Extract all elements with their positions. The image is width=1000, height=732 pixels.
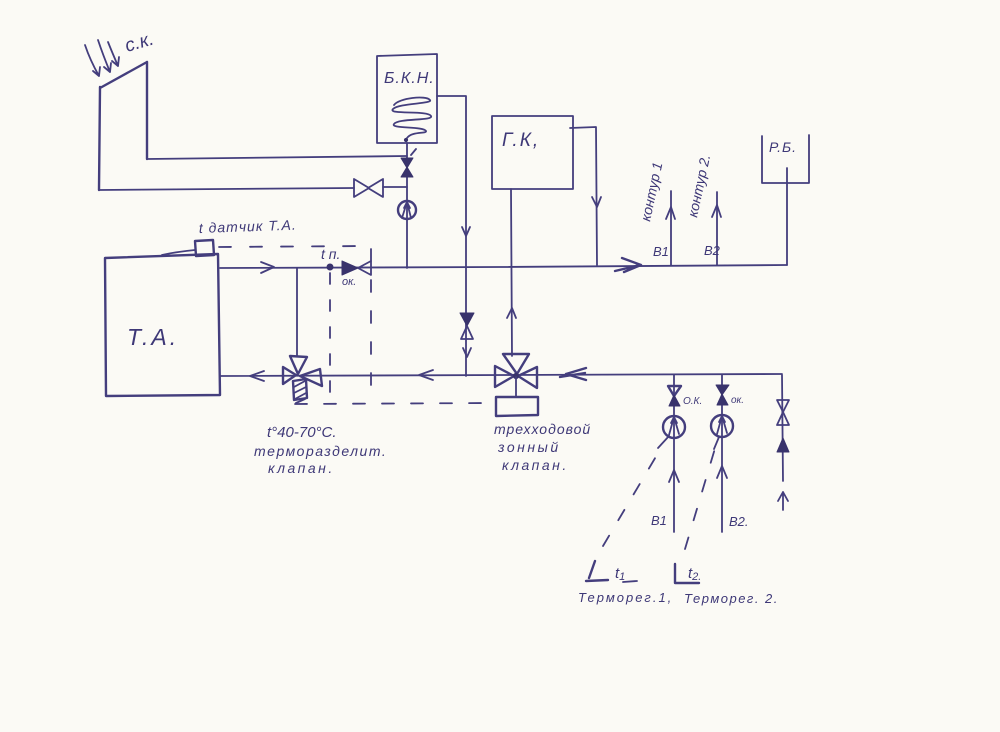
- riser БКН to supply main: [406, 143, 408, 268]
- svg-text:Терморег. 2.: Терморег. 2.: [684, 591, 779, 606]
- pump contour 2: [711, 415, 733, 437]
- svg-text:ок.: ок.: [731, 395, 744, 406]
- sun rays: [85, 40, 119, 76]
- pump on БКН riser: [398, 201, 416, 219]
- svg-text:Б.К.Н.: Б.К.Н.: [384, 70, 435, 87]
- svg-text:трехходовой: трехходовой: [494, 421, 591, 437]
- contour 2 return branch: [721, 375, 723, 532]
- svg-text:В1: В1: [651, 513, 667, 528]
- flow arrow down to return: [463, 348, 471, 357]
- svg-text:ок.: ок.: [342, 276, 356, 288]
- valve on БКН drop: [460, 313, 474, 326]
- flow arrow supply near tank: [261, 262, 274, 273]
- pipe ГК bottom to zone valve: [511, 189, 512, 356]
- boiler БКН box: [377, 54, 437, 143]
- svg-text:t датчик Т.А.: t датчик Т.А.: [199, 217, 297, 236]
- thermo valve actuator hatched: [293, 379, 307, 400]
- flow arrow return right big: [560, 368, 586, 380]
- valve on БКН riser: [401, 158, 413, 177]
- supply main: [220, 265, 787, 268]
- pipe БКН right side down to return: [437, 96, 466, 376]
- coil end dot: [404, 138, 407, 141]
- storage tank ТА box: [105, 254, 220, 396]
- flow arrow return mid: [419, 370, 433, 380]
- check valve ок contour 2: [716, 385, 729, 405]
- pipe РБ down to supply main: [786, 168, 788, 265]
- solar collector: [99, 62, 147, 190]
- svg-text:О.К.: О.К.: [683, 396, 702, 407]
- flow arrow down: [592, 197, 601, 207]
- thermo mixing valve: [283, 356, 322, 386]
- collector return pipe: [99, 187, 407, 190]
- flow arrow return near tank: [250, 371, 264, 381]
- dashed thermostat line 2: [685, 445, 716, 549]
- pipe ГК right to supply main: [570, 127, 597, 265]
- svg-text:клапан.: клапан.: [502, 457, 569, 473]
- svg-text:t°40-70°C.: t°40-70°C.: [267, 424, 337, 441]
- svg-text:Т.А.: Т.А.: [127, 324, 179, 350]
- dashed line sensor to valve: [219, 246, 371, 400]
- big flow arrow supply: [615, 258, 641, 272]
- three-way zone valve: [495, 354, 537, 388]
- svg-text:Р.Б.: Р.Б.: [769, 139, 797, 155]
- svg-text:Г.К,: Г.К,: [502, 130, 540, 151]
- dashed thermostat line 1: [603, 443, 664, 546]
- dashed line from supply tap: [329, 273, 331, 401]
- svg-text:В1: В1: [653, 244, 669, 259]
- pipe supply main down to thermo valve: [296, 268, 298, 356]
- svg-text:В2.: В2.: [729, 514, 749, 529]
- expansion tank РБ box: [762, 135, 809, 183]
- check valve ОК contour 1: [668, 386, 681, 396]
- contour 1 supply riser: [670, 191, 672, 265]
- return drop right: [782, 375, 783, 481]
- thermostat 1 symbol: [586, 561, 608, 581]
- svg-text:t п.: t п.: [321, 246, 340, 262]
- thermostat 2 symbol: [675, 564, 699, 583]
- svg-text:Терморег.1,: Терморег.1,: [578, 590, 673, 605]
- boiler ГК box: [492, 116, 573, 189]
- flow arrow down: [462, 227, 470, 236]
- svg-text:клапан.: клапан.: [268, 460, 335, 476]
- svg-text:терморазделит.: терморазделит.: [254, 443, 387, 459]
- junction dot supply tap: [327, 264, 333, 270]
- check valve on supply main: [342, 261, 358, 275]
- contour 2 supply riser: [716, 192, 718, 265]
- heat exchanger coil: [392, 98, 431, 138]
- zone valve actuator: [496, 397, 538, 416]
- valve on collector return: [354, 179, 383, 197]
- filled up arrow on drop: [777, 438, 789, 452]
- temp sensor on tank: [195, 240, 214, 256]
- valve on return drop: [777, 400, 789, 425]
- dashed control line to zone valve: [295, 403, 496, 404]
- flow arrow up: [507, 308, 516, 318]
- return main: [220, 374, 782, 376]
- pump contour 1: [663, 416, 685, 438]
- svg-text:В2: В2: [704, 243, 721, 258]
- collector supply pipe: [147, 156, 407, 159]
- svg-text:зонный: зонный: [497, 439, 561, 455]
- small stub arrow: [778, 492, 788, 510]
- contour 1 return branch: [673, 375, 675, 532]
